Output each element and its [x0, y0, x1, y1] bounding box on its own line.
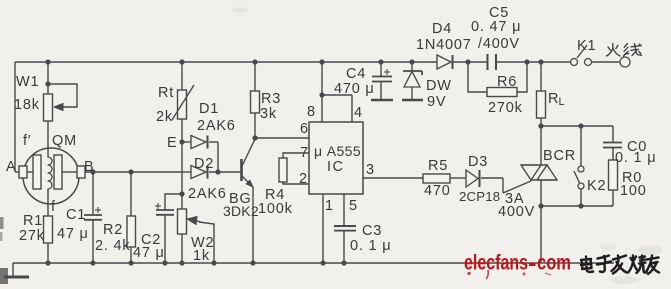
svg-text:BCR: BCR [543, 148, 576, 164]
svg-text:3k: 3k [260, 106, 277, 122]
svg-text:2. 4k: 2. 4k [95, 238, 130, 254]
svg-text:18k: 18k [14, 97, 40, 113]
svg-text:9V: 9V [427, 94, 446, 110]
svg-text:D2: D2 [194, 156, 214, 172]
svg-text:2: 2 [299, 171, 308, 187]
svg-text:100k: 100k [258, 201, 293, 217]
svg-text:2k: 2k [156, 109, 173, 125]
svg-text:A: A [6, 159, 16, 175]
svg-text:f′: f′ [23, 133, 31, 149]
svg-text:2AK6: 2AK6 [197, 118, 236, 134]
svg-text:47 μ: 47 μ [57, 226, 89, 242]
svg-text:C3: C3 [362, 223, 382, 239]
svg-text:0. 1 μ: 0. 1 μ [350, 238, 391, 254]
svg-text:/400V: /400V [478, 36, 520, 52]
svg-text:470 μ: 470 μ [334, 81, 375, 97]
svg-text:QM: QM [52, 133, 77, 149]
svg-text:3: 3 [366, 162, 375, 178]
svg-text:elecfans: elecfans [464, 252, 528, 275]
svg-text:100: 100 [620, 183, 647, 199]
svg-text:0. 47 μ: 0. 47 μ [471, 19, 521, 35]
svg-text:R3: R3 [261, 91, 281, 107]
svg-text:W1: W1 [16, 74, 39, 90]
svg-text:IC: IC [327, 159, 345, 175]
svg-text:47 μ: 47 μ [133, 245, 165, 261]
svg-text:R2: R2 [103, 222, 123, 238]
svg-text:2CP18: 2CP18 [459, 189, 500, 204]
svg-text:3DK2: 3DK2 [223, 203, 259, 219]
svg-text:E: E [167, 135, 177, 151]
svg-text:4: 4 [354, 105, 363, 121]
svg-text:D4: D4 [432, 21, 452, 37]
svg-text:270k: 270k [488, 100, 523, 116]
svg-text:C1: C1 [66, 207, 86, 223]
svg-text:470: 470 [424, 183, 451, 199]
svg-text:2AK6: 2AK6 [188, 186, 227, 202]
svg-text:1N4007: 1N4007 [416, 37, 472, 53]
svg-text:com: com [537, 252, 571, 275]
svg-text:B: B [84, 159, 94, 175]
svg-text:27k: 27k [19, 228, 45, 244]
svg-text:400V: 400V [498, 204, 535, 220]
svg-text:R1: R1 [23, 213, 43, 229]
svg-text:μ A555: μ A555 [314, 143, 361, 159]
svg-text:0. 1 μ: 0. 1 μ [615, 150, 656, 166]
svg-text:8: 8 [307, 104, 316, 120]
svg-text:D3: D3 [468, 154, 488, 170]
svg-text:7: 7 [300, 145, 309, 161]
svg-text:1k: 1k [193, 248, 210, 264]
svg-text:D1: D1 [199, 101, 219, 117]
svg-text:Rt: Rt [158, 85, 174, 101]
svg-text:5: 5 [349, 198, 358, 214]
svg-text:R6: R6 [497, 74, 517, 90]
svg-text:R5: R5 [428, 158, 448, 174]
svg-text:K2: K2 [587, 178, 606, 194]
svg-text:1: 1 [325, 198, 334, 214]
svg-text:DW: DW [426, 78, 452, 94]
svg-text:K1: K1 [577, 38, 596, 54]
svg-text:6: 6 [300, 121, 309, 137]
svg-text:f: f [51, 199, 56, 215]
svg-text:C4: C4 [346, 66, 366, 82]
